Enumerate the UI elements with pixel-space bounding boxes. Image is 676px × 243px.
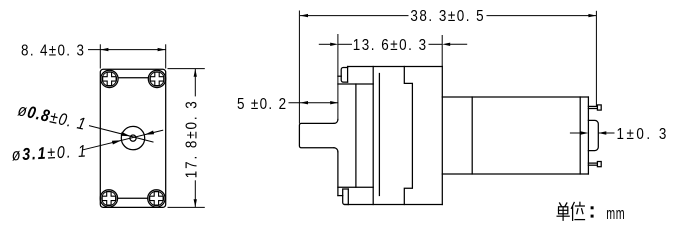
leader d0.8 arrowhead [121, 132, 131, 136]
dim 8.4 arrow right [158, 48, 166, 51]
bottom clip tab [343, 189, 349, 205]
dim 13.6 tail right [450, 43, 468, 45]
screw S4 phillips cross [150, 192, 163, 205]
dim 13.6 tail left [319, 43, 331, 45]
dim 38.3 dimension line left part [300, 15, 409, 17]
head inner plate line c [372, 67, 374, 205]
dim 38.3 dimension line right part [487, 15, 597, 17]
svg-text:13. 6±0. 3: 13. 6±0. 3 [353, 37, 428, 54]
bottom tab connector [338, 195, 343, 197]
side view inlet nozzle outline [299, 123, 334, 147]
svg-text:1±0. 3: 1±0. 3 [617, 126, 669, 143]
svg-text:8. 4±0. 3: 8. 4±0. 3 [21, 43, 85, 60]
screw S2 inner circle [150, 72, 164, 86]
dim 17.8 arrow top [194, 69, 197, 77]
valve cover right edge lower [347, 189, 349, 205]
screw S3 phillips cross [102, 192, 115, 205]
gearbox/can seam [471, 97, 473, 174]
leader d3.1 arrowhead left [112, 140, 122, 144]
dim text 1±0.3 [617, 126, 669, 143]
unit note: hanzi DAN (unit) drawn strokes [557, 203, 569, 220]
screw S1 inner circle [102, 72, 116, 86]
motor can top edge [442, 96, 588, 98]
dim 38.3 extension line left [298, 11, 300, 124]
dim 1 arrow right [598, 131, 606, 134]
dim 1 arrow left [580, 131, 588, 134]
dim text 5±0.2 [237, 96, 287, 113]
leader line for d3.1 [83, 130, 163, 150]
pump head right edge [441, 67, 443, 205]
terminal bottom crimp [597, 162, 601, 167]
dim 1 tail right [598, 132, 614, 134]
motor can right face [579, 97, 581, 174]
top clip tab [341, 68, 347, 83]
nozzle bottom fillet [334, 148, 338, 152]
dim 17.8 dimension line [194, 69, 196, 97]
dim text 17.8±0.3 (vertical) [183, 99, 200, 178]
leader line for d0.8 [89, 126, 154, 143]
terminal top line1 [588, 105, 597, 107]
dim 13.6 arrow right [442, 43, 450, 46]
pump head bottom edge [345, 204, 443, 206]
dim text 38.3±0.5 [410, 8, 485, 25]
valve cover front face upper segment [337, 35, 339, 120]
svg-text:5 ±0. 2: 5 ±0. 2 [237, 96, 287, 113]
brush housing bump [588, 120, 598, 150]
dim 5 arrow left [300, 101, 308, 104]
dim 13.6 extension line right [441, 35, 443, 66]
port outer circle d3.1 [121, 126, 144, 149]
dim 38.3 arrow left [300, 14, 308, 17]
label d3.1±0.1 (rotated) [11, 142, 88, 164]
dim 1 tail left [570, 132, 581, 134]
dim 8.4 extension line right [165, 44, 167, 68]
screw S3 inner circle [102, 191, 116, 205]
head notched inner plate [404, 67, 412, 205]
pump head top edge [348, 66, 443, 68]
dim 17.8 arrow bottom [194, 199, 197, 207]
screw S4 outer circle (bottom-right) [148, 190, 165, 207]
terminal top crimp [597, 105, 601, 110]
screw S2 outer circle (top-right) [148, 70, 165, 87]
dim 5 arrow right [330, 101, 338, 104]
dim 17.8 extension line bottom [168, 206, 205, 208]
terminal bottom line1 [588, 162, 597, 164]
dim text 8.4±0.3 [21, 43, 85, 60]
screw S1 phillips cross [103, 72, 116, 85]
head inner chamber bottom edge [338, 186, 373, 188]
front view pump body [100, 69, 165, 207]
screw S3 outer circle (bottom-left) [100, 190, 117, 207]
dim 5 dimension line [289, 102, 339, 104]
dim 8.4 arrow left [100, 48, 108, 51]
motor end cap face [587, 97, 589, 174]
dim 13.6 inner segment right [429, 43, 443, 45]
valve cover right edge upper [347, 67, 349, 83]
valve cover front face lower segment [337, 152, 339, 196]
svg-text:mm: mm [606, 205, 625, 224]
svg-text:38. 3±0. 5: 38. 3±0. 5 [410, 8, 485, 25]
screw S4 inner circle [149, 191, 163, 205]
head inner chamber top edge [338, 83, 373, 85]
terminal top line2 [588, 108, 597, 110]
unit note: hanzi WEI (position) drawn strokes [571, 202, 584, 220]
dim 17.8 extension line top [168, 68, 205, 70]
parting line between bottom screws [118, 197, 147, 199]
svg-text:17. 8±0. 3: 17. 8±0. 3 [183, 99, 200, 178]
leader d3.1 arrowhead right [144, 131, 154, 135]
port inner circle d0.8 [130, 135, 136, 141]
label d0.8±0.1 (rotated) [16, 101, 88, 134]
head inner plate line a [355, 84, 357, 187]
dim 8.4 dimension line [88, 49, 166, 51]
dim 38.3 arrow right [588, 14, 596, 17]
unit note: fullwidth colon [591, 206, 594, 217]
dim 8.4 extension line left [99, 44, 101, 68]
motor can bottom edge [442, 173, 588, 175]
dim 13.6 inner segment left [338, 43, 352, 45]
terminal bottom line2 [588, 164, 597, 166]
nozzle top fillet [334, 120, 338, 124]
dim 13.6 arrow left [330, 43, 338, 46]
dim text 13.6±0.3 [353, 37, 428, 54]
dim 38.3 extension line right [595, 11, 597, 107]
screw S2 phillips cross [150, 72, 163, 85]
unit note: mm [606, 205, 625, 224]
top tab connector [338, 75, 341, 77]
screw S1 outer circle (top-left) [101, 70, 118, 87]
head inner plate line d [378, 74, 380, 196]
parting line between top screws [119, 77, 148, 79]
